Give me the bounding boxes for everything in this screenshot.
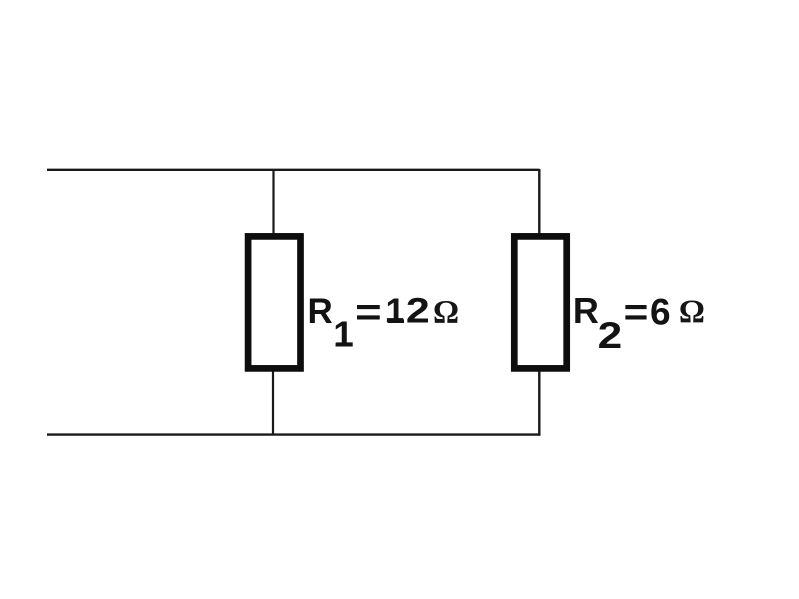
wire R1 top lead bbox=[272, 170, 274, 235]
svg-text:1: 1 bbox=[386, 292, 405, 331]
wire R2 top lead bbox=[538, 169, 540, 235]
svg-text:2: 2 bbox=[598, 315, 623, 356]
svg-text:6: 6 bbox=[650, 291, 671, 332]
resistor R2 bbox=[514, 236, 566, 368]
svg-text:R: R bbox=[573, 290, 599, 331]
svg-text:1: 1 bbox=[333, 313, 353, 354]
label R1 subscript 1 base bar bbox=[336, 342, 352, 346]
svg-text:=: = bbox=[624, 292, 649, 334]
svg-text:2: 2 bbox=[406, 292, 430, 331]
label R1 digit 1 base bar bbox=[387, 318, 403, 322]
wire top rail bbox=[47, 169, 540, 171]
svg-text:Ω: Ω bbox=[433, 294, 459, 330]
wire R1 bottom lead bbox=[272, 370, 274, 435]
resistor R1 bbox=[248, 236, 300, 368]
wire bottom rail bbox=[47, 433, 540, 435]
svg-text:=: = bbox=[355, 292, 382, 334]
wire R2 bottom lead bbox=[538, 370, 540, 436]
svg-text:R: R bbox=[308, 292, 333, 331]
svg-text:Ω: Ω bbox=[679, 294, 705, 330]
